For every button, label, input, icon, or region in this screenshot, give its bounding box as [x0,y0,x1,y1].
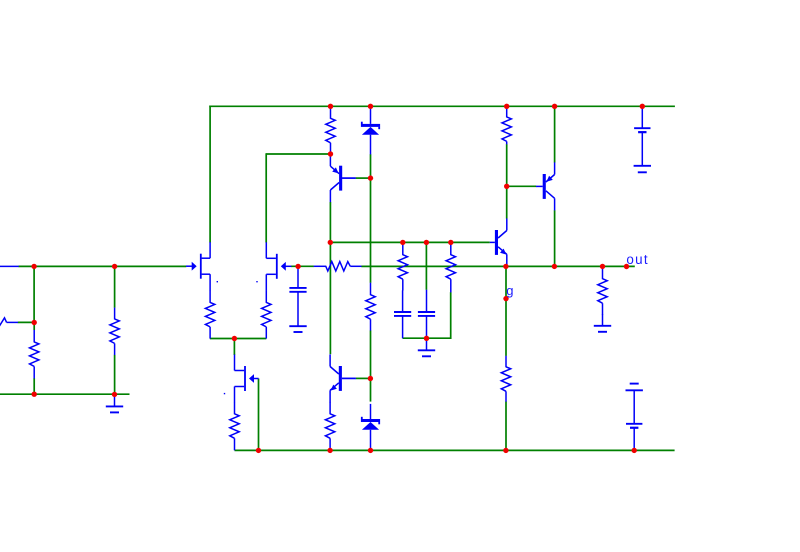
battery V1 positive supply [641,107,643,129]
resistor R6 x=34 [33,330,35,343]
wire stub left resistor to node x=34 [18,321,34,323]
resistor R11 on net g [505,356,507,368]
junction dot [600,264,605,269]
junction dot [504,104,509,109]
wire node between R1 bottom and J2 drain column [266,153,331,155]
junction dot [400,240,405,245]
tiny mark under J3 [224,393,225,394]
junction dot [552,104,557,109]
ground under caps [426,338,428,350]
ground on bottom-left rail [114,394,116,406]
wire R8 bottom via caps common to ground node [403,292,451,338]
resistor R3 source degeneration J1 [209,290,211,303]
wire output node to out label [506,265,635,267]
junction dot [632,448,637,453]
wire left drop from rail to J1 drain [209,106,211,243]
wire R9 right to output emitter node [361,265,506,267]
tiny mark under J2 [256,281,257,282]
wire P1 collector to mirror node [329,202,331,242]
resistor R8a x=403 [402,243,404,256]
wire J2 gate node to R9 left [291,265,314,267]
wire P2 collector to output node [554,210,556,266]
zener diode D2 [370,404,372,419]
wire J2 drain column [265,153,267,242]
wire P1 base blue lead [342,177,356,179]
resistor R7 tail source resistor [234,402,236,414]
npn transistor Q2 (mirrored) lower [339,366,342,391]
tiny mark under J1 [217,281,218,282]
junction dot [368,104,373,109]
capacitor C3 x=426 [426,290,428,312]
wire J3 gate to bottom rail [258,379,260,451]
junction dot [368,175,373,180]
resistor R8 x=451 [450,243,452,256]
junction dot [624,264,629,269]
wire base drive line y=242 [330,241,490,243]
jfet J1 left of differential pair [209,242,211,258]
junction dot [504,184,509,189]
ground under C1 [289,325,306,327]
wire differential pair common source node [210,338,266,340]
resistor R_in partial at left edge y=322 [0,318,7,328]
junction dot [328,104,333,109]
junction dot [448,240,453,245]
ground under V1 [634,165,651,167]
wire left bias column x=34 [33,266,35,323]
resistor R4 source degeneration J2 [265,290,267,303]
junction dot [32,320,37,325]
wire Q2 base blue lead [342,377,356,379]
junction dot [31,264,36,269]
wire top supply rail V+ [209,105,675,107]
wire output node down to R11 top (net g) [505,266,507,356]
resistor R1 top of PNP P1 [330,106,332,118]
ground above V2 (flipped) [626,389,643,391]
wire Q2 base node to zener D2 [370,378,372,401]
svg-text:g: g [506,283,513,298]
wire zener D1 to P1 base node [370,154,372,178]
resistor R9 horizontal on gate net [314,265,327,267]
junction dot [503,448,508,453]
junction dot [424,336,429,341]
zener diode D1 [370,109,372,124]
ground under R13 [594,325,611,327]
capacitor C1 on J2 gate [297,267,299,288]
wire R10 bottom to Q2 base node [370,330,372,378]
junction dot [552,264,557,269]
pnp transistor P2 output [543,174,546,199]
wire input net to J1 gate [19,265,187,267]
wire R2 bottom to P2 base node [506,144,508,186]
junction dot [327,448,332,453]
wire P1 base to zener column node [356,177,371,179]
resistor R5 x=114.5 [114,308,116,320]
capacitor C2 x=403 [402,290,404,312]
junction dot [328,240,333,245]
junction dot [295,264,300,269]
jfet J2 right of differential pair [265,242,267,258]
battery V2 negative supply (flipped) [633,390,635,424]
junction dot [368,448,373,453]
junction dot [328,151,333,156]
svg-text:out: out [626,252,649,267]
resistor R10 x=370 mid [370,283,372,296]
junction dot [112,392,117,397]
resistor R2 x=506 from rail [506,106,508,117]
junction dot [424,240,429,245]
wire R5 bottom to ground rail [114,355,116,395]
wire bottom supply rail V- [235,449,675,451]
wire P1 base node down to R10 top [370,178,372,283]
wire P2 base node to P2 base [507,185,537,187]
wire mirror node down to Q2 collector [329,242,331,355]
wire stub node to R6 top [33,322,35,330]
npn transistor Q1 driver [495,230,498,255]
wire tail node down to J3 drain [233,338,235,355]
junction dot [256,448,261,453]
pnp transistor P1 (mirrored) [339,166,342,191]
junction dot [32,392,37,397]
wire Q2 base to zener column node [356,377,371,379]
wire P2 base node down to Q1 collector [506,186,508,219]
junction dot [503,264,508,269]
resistor R12 under Q2 emitter [329,402,331,414]
junction dot [368,376,373,381]
wire rail to P2 emitter [554,106,556,163]
resistor R13 output load [602,267,604,280]
junction dot [112,264,117,269]
wire R5 top from input net [114,266,116,308]
jfet J3 tail current source [234,355,236,371]
wire R6 bottom to ground rail [33,378,35,395]
junction dot [503,296,508,301]
wire compensation node down to C3 [425,242,427,290]
junction dot [232,336,237,341]
wire bottom-left ground rail [0,393,130,395]
wire R11 bottom to bottom rail [505,402,507,451]
input lead (blue) at left edge [0,265,19,267]
junction dot [640,104,645,109]
